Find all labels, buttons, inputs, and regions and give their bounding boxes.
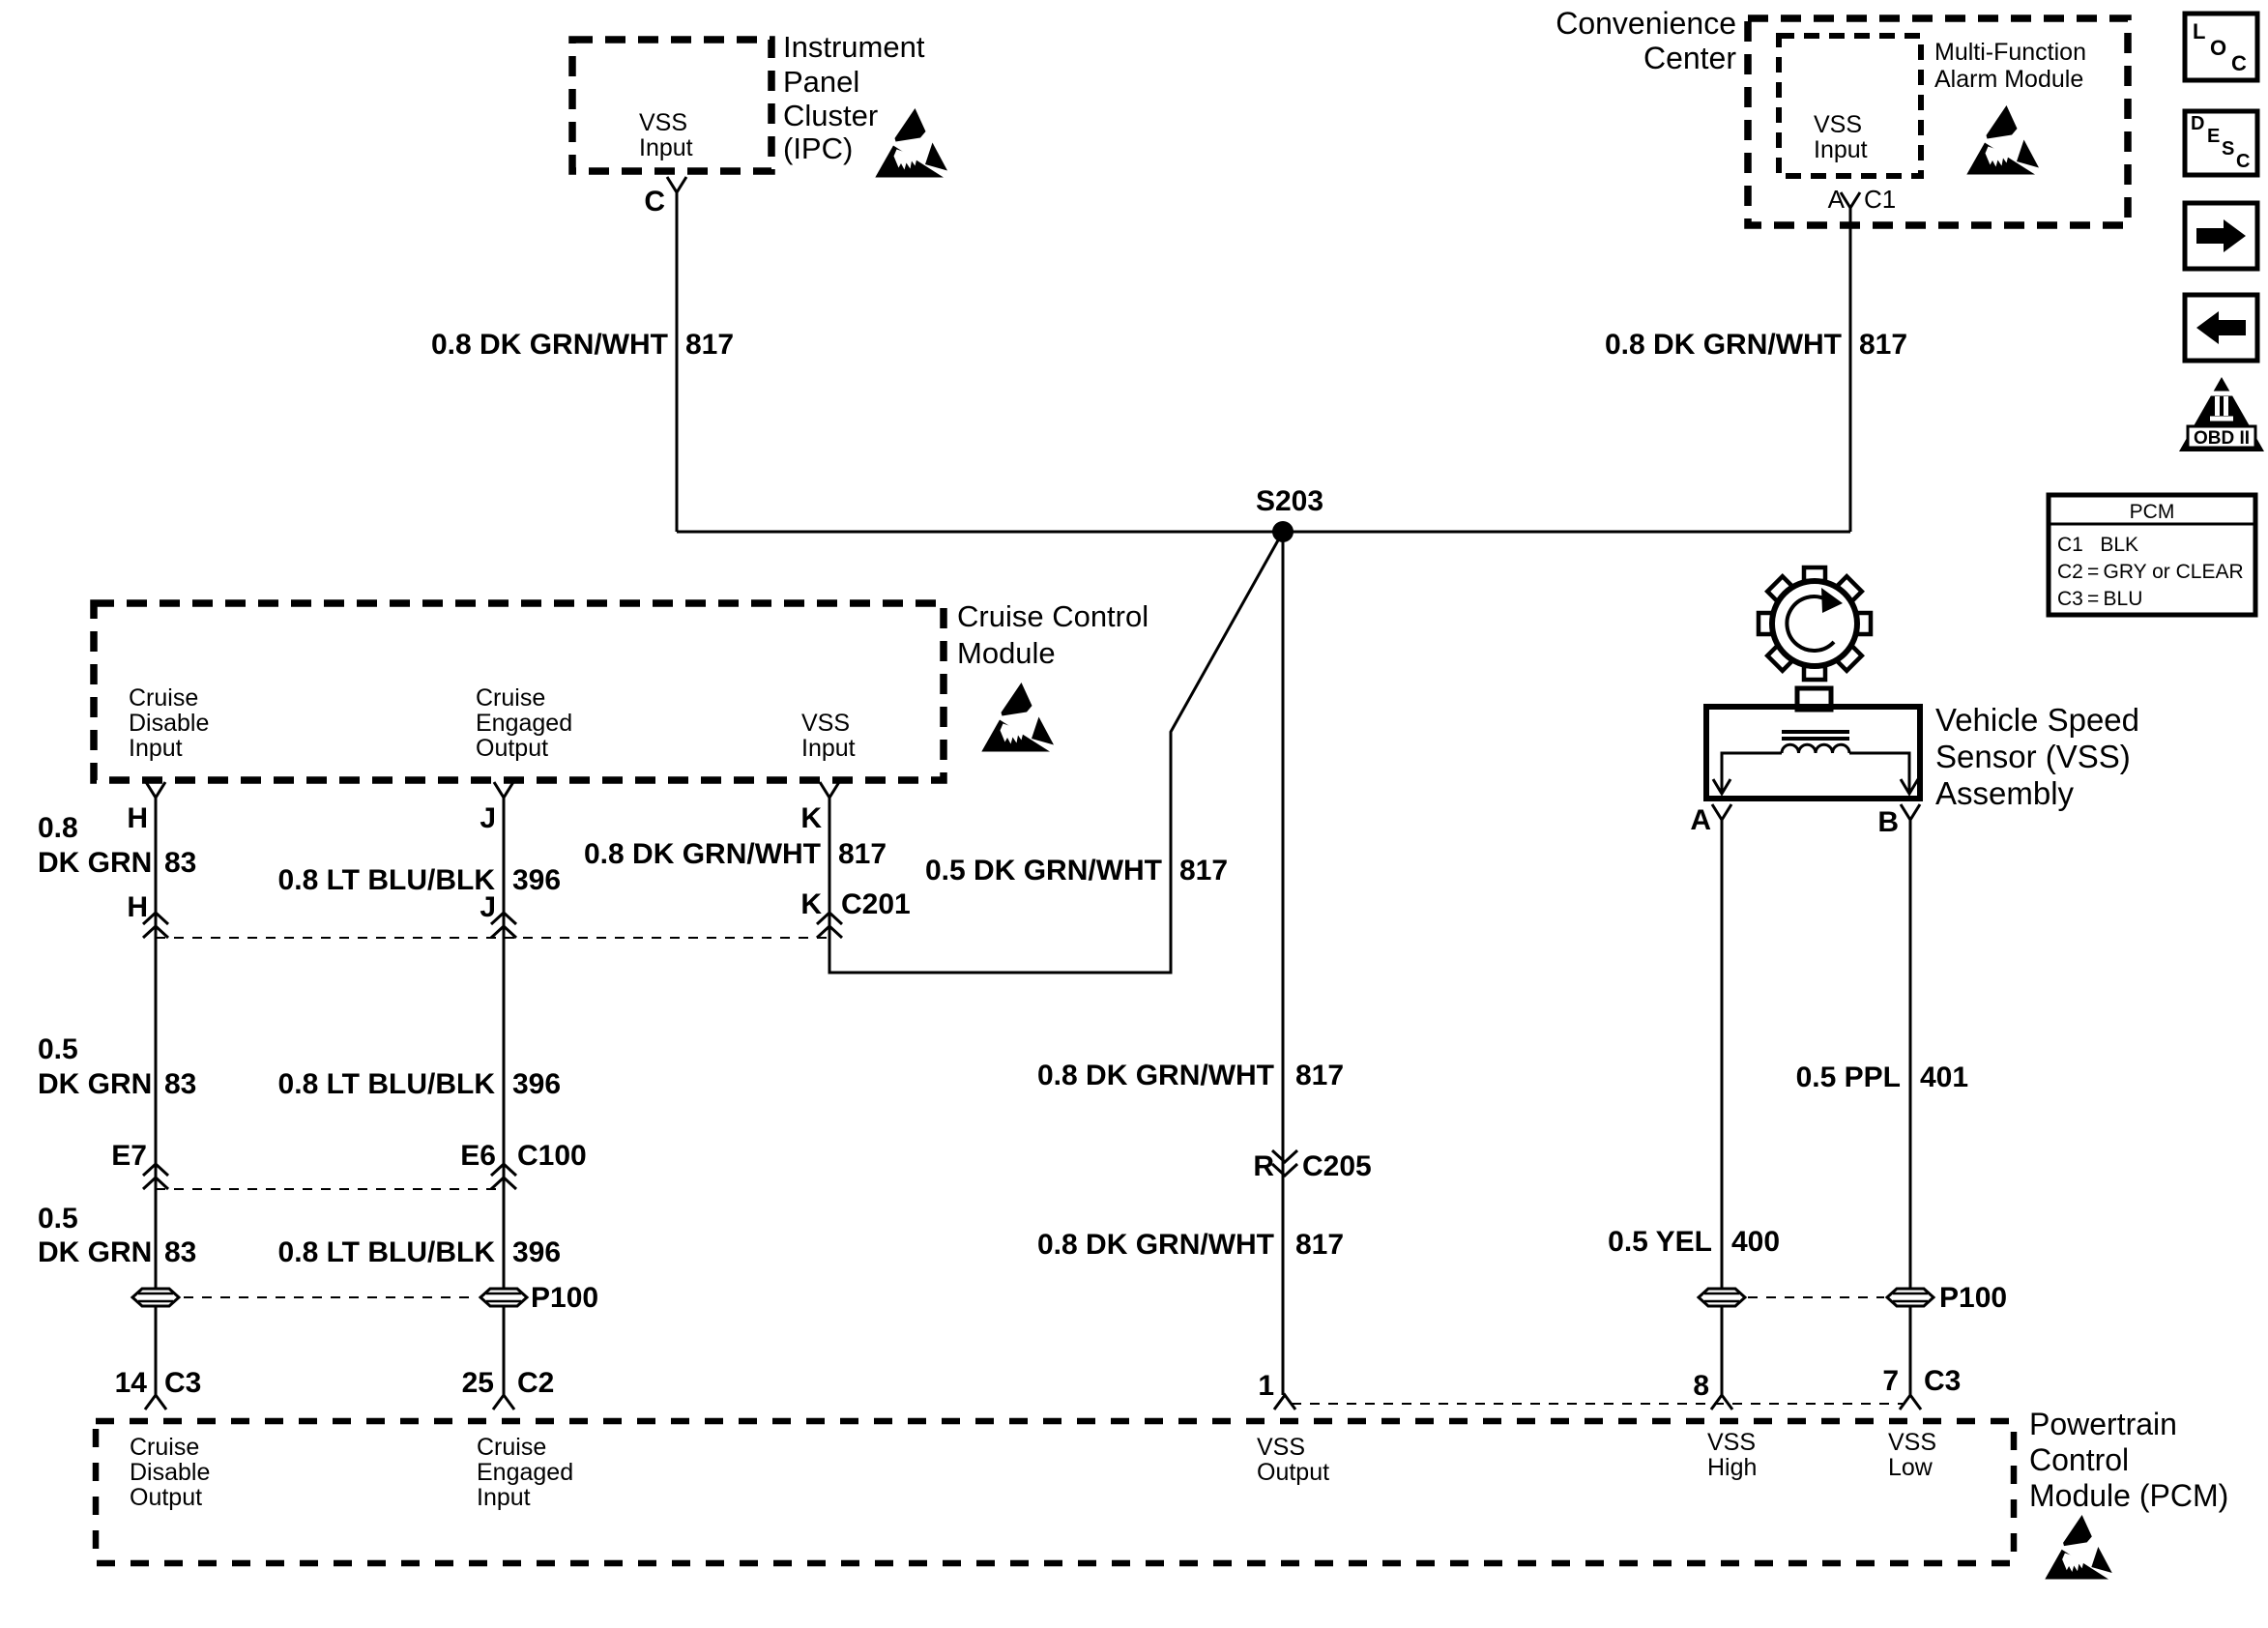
svg-text:0.8 DK GRN/WHT: 0.8 DK GRN/WHT [1037, 1229, 1274, 1261]
svg-text:VSS: VSS [639, 109, 687, 136]
svg-text:C201: C201 [841, 888, 911, 920]
svg-text:S: S [2222, 138, 2234, 160]
svg-text:PCM: PCM [2130, 501, 2175, 523]
Instrument Panel Cluster (IPC) module dashed box [572, 40, 771, 171]
svg-text:DK GRN: DK GRN [38, 1068, 152, 1100]
svg-text:C1: C1 [1864, 185, 1896, 214]
connector C201 chevrons at K [817, 913, 842, 938]
svg-text:DK GRN: DK GRN [38, 847, 152, 879]
svg-text:Input: Input [1814, 136, 1868, 163]
connector Y at pin A [1841, 192, 1860, 208]
svg-text:J: J [480, 802, 496, 834]
ESD sensitive symbol (IPC) [875, 108, 947, 178]
connector C205 chevrons [1272, 1150, 1297, 1176]
Convenience Center outer dashed box [1748, 18, 2128, 225]
svg-text:Panel: Panel [783, 65, 859, 99]
svg-text:0.8 DK GRN/WHT: 0.8 DK GRN/WHT [1605, 329, 1842, 361]
svg-text:817: 817 [838, 838, 887, 870]
svg-text:0.8 LT BLU/BLK: 0.8 LT BLU/BLK [278, 1068, 496, 1100]
svg-text:817: 817 [1295, 1060, 1344, 1091]
grommet P100 at J wire [480, 1289, 527, 1306]
svg-text:Cruise: Cruise [477, 1434, 546, 1461]
connector caret at pin 8 [1711, 1395, 1732, 1410]
svg-text:Cruise: Cruise [130, 1434, 199, 1461]
wire: main horizontal run IPC to convenience center [677, 531, 1850, 534]
wire: IPC pin C down to main splice run (0.8 DK GRN/WHT 817) [676, 192, 679, 532]
connector Y at pin J [494, 782, 513, 798]
connector C100 chevrons at E6 [491, 1164, 516, 1189]
svg-text:0.8: 0.8 [38, 812, 78, 844]
svg-text:VSS: VSS [1707, 1429, 1756, 1456]
svg-text:A: A [1828, 185, 1846, 214]
svg-text:Module (PCM): Module (PCM) [2029, 1478, 2228, 1513]
svg-text:396: 396 [512, 864, 561, 896]
connector Y at pin H [146, 782, 165, 798]
svg-text:Instrument: Instrument [783, 30, 925, 64]
svg-text:Vehicle Speed: Vehicle Speed [1935, 702, 2139, 738]
svg-text:Convenience: Convenience [1556, 6, 1736, 41]
svg-text:R: R [1253, 1150, 1274, 1182]
connector C100 chevrons at E7 [143, 1164, 168, 1189]
forward arrow reference box [2185, 203, 2257, 269]
connector Y at pin K [820, 782, 839, 798]
svg-text:817: 817 [1295, 1229, 1344, 1261]
svg-text:Engaged: Engaged [477, 1459, 573, 1486]
svg-text:Cruise: Cruise [129, 684, 198, 712]
svg-text:0.5 DK GRN/WHT: 0.5 DK GRN/WHT [925, 855, 1162, 887]
svg-text:(IPC): (IPC) [783, 131, 853, 165]
wire: S203 down to PCM VSS output pin 1 [1282, 532, 1285, 1395]
wire: VSS low B to PCM pin 7 (0.5 PPL 401) [1909, 820, 1912, 1395]
svg-text:401: 401 [1920, 1061, 1968, 1093]
connector caret at pin 25 [493, 1395, 514, 1410]
svg-text:C: C [644, 186, 665, 218]
svg-text:K: K [800, 888, 822, 920]
svg-text:Center: Center [1643, 41, 1736, 75]
svg-text:396: 396 [512, 1068, 561, 1100]
svg-text:VSS: VSS [1814, 111, 1862, 138]
svg-text:High: High [1707, 1454, 1757, 1481]
VSS coil lead left with arrow [1722, 753, 1782, 793]
svg-text:817: 817 [685, 329, 734, 361]
svg-text:Cluster: Cluster [783, 99, 878, 132]
svg-text:0.8 DK GRN/WHT: 0.8 DK GRN/WHT [584, 838, 821, 870]
connector Y at pin C [667, 177, 686, 192]
connector caret at pin 7 [1900, 1395, 1921, 1410]
grommet P100 at A wire [1699, 1289, 1745, 1306]
connector Y at pin B [1901, 804, 1920, 820]
ESD sensitive symbol (alarm module) [1966, 105, 2039, 175]
svg-text:VSS: VSS [1888, 1429, 1936, 1456]
svg-text:14: 14 [115, 1367, 148, 1399]
svg-text:0.8 DK GRN/WHT: 0.8 DK GRN/WHT [431, 329, 668, 361]
svg-text:C3 = BLU: C3 = BLU [2057, 588, 2142, 610]
svg-text:Engaged: Engaged [476, 710, 572, 737]
grommet P100 dashed link (left pair) [184, 1296, 478, 1298]
PCM pins dashed mating line [1292, 1403, 1903, 1405]
wire: VSS input K to splice S203 (0.5 DK GRN/WHT 817) [829, 532, 1283, 973]
svg-text:C3: C3 [164, 1367, 201, 1399]
svg-text:L: L [2193, 19, 2205, 44]
grommet P100 at H wire [132, 1289, 179, 1306]
back arrow reference box [2185, 295, 2257, 361]
ESD sensitive symbol (PCM) [2045, 1515, 2112, 1579]
svg-text:E6: E6 [460, 1140, 496, 1172]
VSS reluctor gear icon [1759, 567, 1871, 680]
Powertrain Control Module dashed box [96, 1421, 2014, 1563]
svg-text:VSS: VSS [801, 710, 850, 737]
VSS sensor connecting shaft [1797, 688, 1831, 710]
svg-text:Output: Output [1257, 1459, 1329, 1486]
svg-text:A: A [1690, 804, 1711, 836]
svg-text:1: 1 [1258, 1370, 1274, 1402]
svg-text:K: K [800, 802, 822, 834]
VSS core lines [1782, 732, 1849, 739]
svg-text:0.5 YEL: 0.5 YEL [1608, 1226, 1712, 1258]
svg-text:Disable: Disable [129, 710, 209, 737]
LOC reference box [2185, 14, 2257, 80]
PCM connector legend box [2049, 495, 2255, 615]
svg-text:Cruise: Cruise [476, 684, 545, 712]
svg-text:C100: C100 [517, 1140, 587, 1172]
svg-text:Control: Control [2029, 1442, 2129, 1477]
svg-text:C: C [2231, 51, 2247, 75]
svg-text:396: 396 [512, 1236, 561, 1268]
OBD II symbol triangle [2179, 377, 2264, 451]
svg-text:B: B [1877, 806, 1899, 838]
splice node S203 [1272, 521, 1294, 542]
svg-text:Input: Input [639, 134, 693, 161]
svg-text:Input: Input [801, 735, 856, 762]
svg-text:OBD II: OBD II [2194, 428, 2250, 449]
connector C201 dashed mating line [156, 937, 829, 939]
svg-text:Output: Output [130, 1484, 202, 1511]
svg-text:Disable: Disable [130, 1459, 210, 1486]
svg-text:8: 8 [1693, 1370, 1709, 1402]
svg-text:Assembly: Assembly [1935, 775, 2075, 811]
svg-text:C1 BLK: C1 BLK [2057, 534, 2138, 556]
svg-text:C: C [2236, 151, 2250, 172]
svg-text:H: H [127, 891, 148, 923]
svg-text:Powertrain: Powertrain [2029, 1407, 2177, 1441]
svg-text:0.8 LT BLU/BLK: 0.8 LT BLU/BLK [278, 864, 496, 896]
grommet P100 at B wire [1887, 1289, 1934, 1306]
svg-text:0.5: 0.5 [38, 1203, 78, 1235]
svg-text:Sensor (VSS): Sensor (VSS) [1935, 739, 2131, 774]
svg-text:Multi-Function: Multi-Function [1934, 39, 2086, 66]
wire: cruise disable H down to PCM (0.8 DK GRN 83) [155, 798, 158, 1395]
svg-text:817: 817 [1179, 855, 1228, 887]
svg-text:83: 83 [164, 1236, 196, 1268]
svg-text:83: 83 [164, 1068, 196, 1100]
wire: alarm module pin A down to splice run (0.8 DK GRN/WHT 817) [1849, 208, 1852, 532]
svg-text:817: 817 [1859, 329, 1907, 361]
svg-text:VSS: VSS [1257, 1434, 1305, 1461]
svg-text:Input: Input [129, 735, 183, 762]
connector C201 chevrons at J [491, 913, 516, 938]
Multi-Function Alarm Module inner dashed box [1779, 36, 1921, 176]
svg-text:Cruise Control: Cruise Control [957, 599, 1149, 633]
DESC reference box [2185, 111, 2257, 175]
connector caret at pin 14 [145, 1395, 166, 1410]
svg-text:C205: C205 [1302, 1150, 1372, 1182]
connector C100 dashed mating line [156, 1188, 504, 1190]
svg-text:E7: E7 [111, 1140, 147, 1172]
svg-text:H: H [127, 802, 148, 834]
svg-text:P100: P100 [1939, 1282, 2007, 1314]
svg-text:25: 25 [462, 1367, 494, 1399]
svg-text:E: E [2207, 126, 2220, 147]
svg-text:P100: P100 [531, 1282, 598, 1314]
svg-text:D: D [2191, 113, 2204, 134]
VSS coil winding [1782, 744, 1849, 753]
wire: VSS high A to PCM pin 8 (0.5 YEL 400) [1721, 820, 1724, 1395]
svg-text:0.5: 0.5 [38, 1033, 78, 1065]
svg-text:O: O [2210, 36, 2226, 60]
svg-text:0.5 PPL: 0.5 PPL [1796, 1061, 1901, 1093]
svg-text:0.8 DK GRN/WHT: 0.8 DK GRN/WHT [1037, 1060, 1274, 1091]
svg-text:7: 7 [1882, 1365, 1899, 1397]
svg-text:C3: C3 [1924, 1365, 1961, 1397]
ESD sensitive symbol (cruise module) [981, 683, 1054, 752]
connector caret at pin 1 [1274, 1395, 1295, 1410]
svg-text:Module: Module [957, 636, 1056, 670]
svg-text:J: J [480, 891, 496, 923]
svg-text:Input: Input [477, 1484, 531, 1511]
wire: cruise engaged J down to PCM (0.8 LT BLU/BLK 396) [503, 798, 506, 1395]
svg-text:0.8 LT BLU/BLK: 0.8 LT BLU/BLK [278, 1236, 496, 1268]
svg-text:DK GRN: DK GRN [38, 1236, 152, 1268]
Cruise Control Module dashed box [94, 603, 944, 780]
Vehicle Speed Sensor assembly box [1706, 707, 1920, 799]
VSS coil lead right with arrow [1849, 753, 1909, 793]
svg-text:Output: Output [476, 735, 548, 762]
connector C201 chevrons at H [143, 913, 168, 938]
svg-text:Alarm Module: Alarm Module [1934, 66, 2083, 93]
svg-text:83: 83 [164, 847, 196, 879]
grommet P100 dashed link (right pair) [1748, 1296, 1884, 1298]
svg-text:S203: S203 [1256, 485, 1323, 517]
svg-text:C2: C2 [517, 1367, 554, 1399]
connector Y at pin A [1712, 804, 1731, 820]
svg-text:Low: Low [1888, 1454, 1934, 1481]
svg-text:C2 = GRY or CLEAR: C2 = GRY or CLEAR [2057, 561, 2244, 583]
svg-text:400: 400 [1731, 1226, 1780, 1258]
